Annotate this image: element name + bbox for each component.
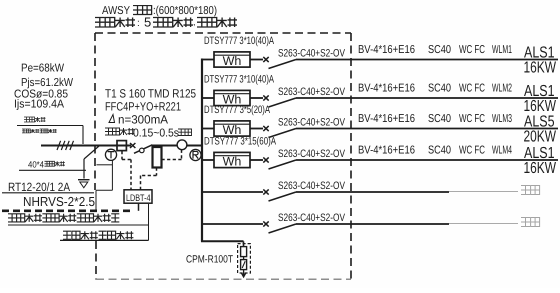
wire bus to surge protector — [201, 240, 244, 242]
gray label 备用 — [521, 186, 540, 195]
dashed link into LDBT — [140, 176, 142, 190]
wire: main line after switch — [152, 145, 202, 147]
svg-text:DTSY777 3*15(60)A: DTSY777 3*15(60)A — [204, 135, 277, 147]
panel border bottom — [96, 279, 351, 281]
svg-text:CPM-R100T: CPM-R100T — [186, 254, 233, 266]
outgoing circuit wire — [296, 159, 558, 161]
spare branch tap wire — [202, 191, 263, 193]
breaker terminal x — [263, 221, 268, 226]
terminal x on main line — [130, 143, 135, 148]
aux wire horizontal lower — [96, 189, 112, 191]
title 井内壁装 — [153, 18, 193, 28]
surge fuse — [241, 247, 247, 257]
dashed link CT down — [121, 151, 123, 160]
svg-text:SC40: SC40 — [428, 113, 451, 125]
underline of fire-host note — [8, 224, 149, 226]
spare wire gray part — [449, 191, 518, 193]
svg-text:S263-C40+S2-OV: S263-C40+S2-OV — [278, 212, 346, 224]
panel border left lower — [95, 241, 97, 280]
wire from LDBT to note box — [148, 204, 150, 240]
svg-text:20KW: 20KW — [524, 129, 557, 146]
svg-text:Wh: Wh — [223, 54, 242, 68]
dashed wire NHRVS to fire host — [2, 210, 130, 213]
spare branch tap wire — [202, 223, 263, 225]
vertical bus — [201, 59, 203, 242]
aux wire drop to NHRVS — [95, 190, 97, 211]
wire meter to breaker — [250, 128, 263, 130]
kWh meter Wh — [214, 90, 250, 105]
svg-text:Pe=68kW: Pe=68kW — [21, 63, 64, 75]
outgoing circuit wire — [296, 97, 558, 99]
branch tap wire — [202, 128, 214, 130]
svg-text:40*4: 40*4 — [28, 160, 44, 170]
svg-text:16KW: 16KW — [524, 160, 557, 177]
delta symbol — [109, 115, 115, 123]
gray label 备用 — [521, 218, 540, 227]
svg-text:WC FC: WC FC — [459, 44, 485, 56]
outgoing circuit wire — [296, 59, 558, 61]
wire: incoming supply line — [41, 145, 131, 147]
note 型号规格由供电部门定 — [22, 129, 57, 133]
svg-text:WLM2: WLM2 — [492, 83, 512, 95]
svg-text:16KW: 16KW — [524, 60, 557, 77]
svg-text:T1 S 160 TMD R125: T1 S 160 TMD R125 — [105, 87, 196, 101]
svg-text:Wh: Wh — [223, 155, 242, 169]
svg-text:BV-4*16+E16: BV-4*16+E16 — [358, 44, 415, 56]
svg-text:WLM3: WLM3 — [492, 113, 512, 125]
leader drop to incoming line — [82, 126, 84, 145]
wire: PE down conductor — [83, 159, 85, 179]
zero-sequence CT on main line — [117, 141, 126, 151]
breaker terminal x — [263, 126, 268, 131]
svg-text:FFC4P+YO+R221: FFC4P+YO+R221 — [105, 100, 181, 114]
svg-text:LDBT-4: LDBT-4 — [126, 193, 151, 204]
title 下皮距地 — [197, 18, 237, 28]
svg-text:Ijs=109.4A: Ijs=109.4A — [14, 99, 64, 111]
svg-text:S263-C40+S2-OV: S263-C40+S2-OV — [278, 180, 346, 192]
svg-text:BV-4*16+E16: BV-4*16+E16 — [358, 113, 415, 125]
panel border left upper — [94, 33, 96, 190]
svg-text:BV-4*16+E16: BV-4*16+E16 — [358, 145, 415, 157]
indicator R — [190, 149, 201, 160]
spare wire gray part — [449, 223, 518, 225]
branch tap wire — [202, 97, 214, 99]
earth arrow — [241, 274, 246, 279]
note 至小区值班室的火灾监控主机 — [8, 214, 119, 222]
svg-text:S263-C40+S2-OV: S263-C40+S2-OV — [278, 148, 346, 160]
breaker blade — [269, 160, 297, 169]
breaker blade — [269, 192, 297, 201]
title line2 安装方式 — [95, 18, 135, 28]
svg-text::: : — [137, 18, 140, 29]
note 监视模块设在箱内 — [63, 231, 133, 239]
svg-text:S263-C40+S2-OV: S263-C40+S2-OV — [278, 48, 346, 60]
ground symbol bar — [78, 179, 90, 181]
breaker terminal x — [263, 157, 268, 162]
dashed link CT corner — [122, 159, 131, 161]
aux wire vertical from T — [111, 160, 113, 190]
svg-text:SC40: SC40 — [428, 83, 451, 95]
kWh meter Wh — [214, 52, 250, 67]
meter box inner line — [214, 93, 250, 95]
breaker terminal x — [263, 57, 268, 62]
svg-text:DTSY777 3*10(40)A: DTSY777 3*10(40)A — [204, 35, 275, 47]
surge arrester — [241, 260, 247, 270]
svg-text:DTSY777 3*5(20)A: DTSY777 3*5(20)A — [204, 104, 271, 116]
wire meter to breaker — [250, 97, 263, 99]
svg-text:S263-C40+S2-OV: S263-C40+S2-OV — [278, 117, 346, 129]
spec 动作时间 — [105, 128, 135, 135]
arrester arrow — [242, 261, 245, 268]
breaker terminal x — [263, 189, 268, 194]
kWh meter Wh — [214, 121, 250, 136]
wire fuse to arrester — [243, 257, 245, 260]
main breaker block T1 — [153, 147, 162, 168]
wire: PE tap diagonal — [84, 146, 99, 159]
dashed link corner to LDBT — [141, 175, 157, 177]
wire meter to breaker — [250, 59, 263, 61]
svg-text:SC40: SC40 — [428, 145, 451, 157]
svg-text:WC FC: WC FC — [459, 113, 485, 125]
dashed link breaker down — [156, 168, 158, 176]
blade circle — [140, 148, 145, 153]
leader under RT12 label — [2, 192, 94, 194]
svg-text:WLM1: WLM1 — [492, 44, 512, 56]
breaker blade — [269, 98, 297, 107]
note 电缆进线 — [24, 117, 46, 122]
breaker terminal x — [263, 95, 268, 100]
meter box inner line — [214, 123, 250, 125]
wire down to surge fuse — [243, 241, 245, 247]
title chinese 型号 — [133, 6, 152, 15]
outgoing circuit wire — [296, 128, 558, 130]
leader under 40*4 label — [19, 169, 86, 171]
breaker blade — [269, 129, 297, 138]
svg-text::(600*800*180): :(600*800*180) — [153, 5, 217, 17]
surge protector dashed enclosure — [238, 244, 251, 273]
panel border top — [95, 32, 351, 34]
meter box inner line — [214, 155, 250, 157]
stub LDBT to NHRVS wire — [138, 203, 140, 211]
branch tap wire — [202, 159, 214, 161]
branch tap wire — [202, 59, 214, 61]
meter box inner line — [214, 54, 250, 56]
svg-text:DTSY777 3*10(40)A: DTSY777 3*10(40)A — [204, 73, 275, 85]
svg-text:BV-4*16+E16: BV-4*16+E16 — [358, 83, 415, 95]
svg-text:WLM4: WLM4 — [492, 145, 512, 157]
svg-text:WC FC: WC FC — [459, 145, 485, 157]
breaker blade — [269, 60, 297, 69]
dashed link CT to LDBT — [130, 160, 132, 190]
svg-text:5: 5 — [144, 15, 151, 30]
panel border right — [350, 33, 352, 280]
label 镀锌扁钢 — [45, 161, 65, 166]
svg-text:AWSY: AWSY — [102, 5, 130, 17]
cable core tick — [57, 141, 61, 150]
breaker blade — [269, 224, 297, 233]
arrester earth lead — [243, 270, 245, 274]
svg-text:WC FC: WC FC — [459, 83, 485, 95]
wire meter to breaker — [250, 159, 263, 161]
svg-text:SC40: SC40 — [428, 44, 451, 56]
svg-text:,: , — [193, 17, 196, 27]
spare wire black part — [296, 191, 449, 193]
underline of monitor-module note — [60, 239, 149, 241]
svg-text:n=300mA: n=300mA — [118, 113, 168, 127]
spare wire black part — [296, 223, 449, 225]
svg-text:0.15~0.5s: 0.15~0.5s — [133, 128, 179, 140]
meter circle on main line — [177, 140, 187, 150]
main switch blade — [134, 145, 152, 154]
svg-text:NHRVS-2*2.5: NHRVS-2*2.5 — [23, 194, 95, 209]
leader line for incoming note — [17, 125, 83, 127]
svg-text:Pjs=61.2kW: Pjs=61.2kW — [21, 77, 73, 89]
dashed link R corner — [162, 159, 182, 161]
indicator T — [105, 149, 116, 160]
svg-text:RT12-20/1 2A: RT12-20/1 2A — [8, 180, 70, 194]
aux wire horizontal upper — [97, 164, 113, 166]
dashed link R down — [181, 150, 183, 160]
kWh meter Wh — [214, 152, 250, 167]
svg-text:S263-C40+S2-OV: S263-C40+S2-OV — [278, 86, 346, 98]
spec 可调 — [178, 129, 192, 136]
monitor module LDBT-4 — [124, 190, 152, 203]
